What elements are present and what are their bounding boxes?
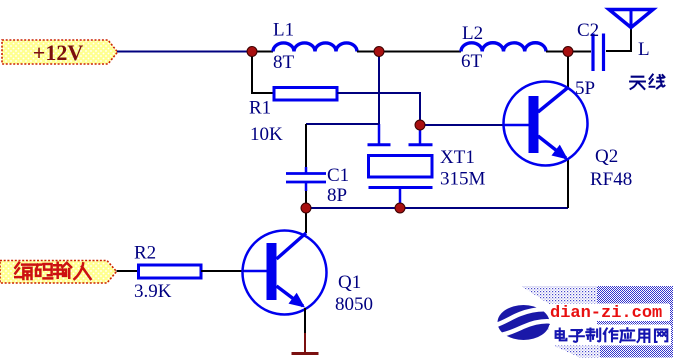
logo dither top band sparse — [521, 286, 597, 304]
wire C2 to antenna — [606, 27, 631, 51]
inductor L1 — [273, 43, 357, 52]
wire node B down to XT1 left — [378, 52, 380, 125]
svg-text:C2: C2 — [577, 20, 599, 41]
junction node D — [415, 120, 425, 130]
svg-text:C1: C1 — [327, 165, 349, 186]
logo slogan CJK (dian zi zhi zuo ying yong wang) — [556, 328, 668, 342]
input flag text (bian ma shu ru) — [15, 263, 90, 279]
wire rail down to Q1 collector — [305, 208, 307, 233]
wire flag to R2 — [117, 270, 140, 272]
svg-text:6T: 6T — [461, 51, 483, 72]
capacitor C2 — [593, 34, 604, 72]
svg-text:XT1: XT1 — [440, 147, 475, 168]
resistor R1 — [274, 88, 337, 101]
logo dither patch — [539, 319, 550, 330]
wire Q1 emitter to ground — [304, 308, 306, 333]
logo dither top band dense — [597, 286, 673, 304]
transistor Q2 — [504, 82, 588, 166]
wire node A to L1 — [252, 51, 273, 53]
svg-text:R2: R2 — [134, 243, 156, 264]
wire node C down to Q2 collector — [567, 52, 569, 89]
logo white halo slogan — [549, 325, 671, 346]
transistor Q1 — [243, 231, 327, 315]
wire node E down to C1 — [305, 124, 307, 167]
svg-text:dian-zi.com: dian-zi.com — [550, 304, 662, 323]
input flag (coded input) — [0, 261, 117, 284]
antenna label (tian xian) — [630, 75, 664, 89]
resistor R2 — [139, 265, 202, 278]
bottom rail wire — [306, 207, 568, 209]
logo emblem — [496, 305, 552, 340]
logo white halo url — [549, 304, 670, 322]
antenna L — [609, 10, 653, 28]
crystal XT1 — [368, 125, 433, 208]
svg-text:Q2: Q2 — [595, 146, 618, 167]
junction node A — [247, 47, 257, 57]
wire node E horizontal to XT1 drop — [306, 123, 379, 125]
capacitor C1 — [286, 167, 326, 191]
inductor L2 — [461, 43, 546, 52]
svg-text:3.9K: 3.9K — [134, 281, 172, 302]
svg-text:R1: R1 — [249, 98, 271, 119]
wire node A down to R1 — [252, 52, 274, 94]
svg-text:L2: L2 — [462, 23, 483, 44]
logo dither right block — [597, 304, 673, 345]
svg-text:RF48: RF48 — [590, 169, 632, 190]
junction node B — [374, 47, 384, 57]
junction node F — [395, 203, 405, 213]
svg-text:8P: 8P — [327, 185, 347, 206]
power flag +12V — [2, 40, 118, 65]
logo dither bottom band dense — [600, 345, 673, 358]
wire node B to L2 — [379, 51, 461, 53]
svg-text:+12V: +12V — [33, 40, 84, 65]
svg-text:Q1: Q1 — [338, 272, 361, 293]
wire +12V to node A — [117, 51, 252, 53]
svg-text:L1: L1 — [273, 20, 294, 41]
junction node C — [563, 47, 573, 57]
svg-text:10K: 10K — [250, 124, 283, 145]
wire R2 to Q1 base — [201, 270, 244, 272]
wire node D to Q2 base — [420, 124, 504, 126]
svg-text:315M: 315M — [440, 169, 486, 190]
ground — [292, 352, 319, 355]
svg-text:L: L — [638, 39, 650, 60]
wire L1 to node B — [357, 51, 379, 53]
wire C1 to bottom rail — [305, 191, 307, 208]
svg-text:8050: 8050 — [335, 294, 373, 315]
logo dither bottom band sparse — [552, 345, 600, 358]
wire R1 to node D — [337, 93, 420, 125]
wire rail up to Q2 emitter — [567, 160, 569, 208]
junction node E — [301, 203, 311, 213]
wire L2 to node C and C2 — [546, 51, 591, 53]
svg-text:8T: 8T — [273, 52, 295, 73]
